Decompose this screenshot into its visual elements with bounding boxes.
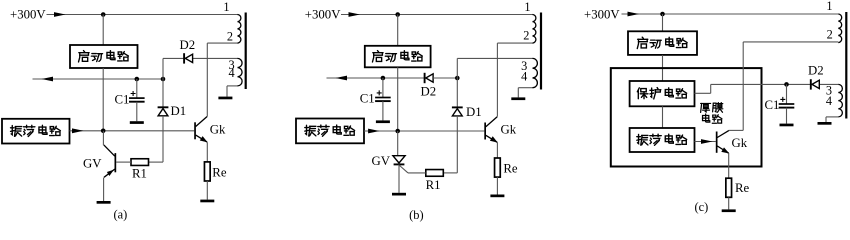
wire: node down to C1 (c) <box>786 84 788 104</box>
transistor Gk (c) <box>716 132 718 153</box>
ground below transformer (a) <box>218 97 232 100</box>
svg-text:4: 4 <box>229 66 235 80</box>
wire: node up and over to transformer pin 3 (b) <box>456 58 458 78</box>
svg-text:C1: C1 <box>765 98 780 112</box>
wire: +300V rail (c) <box>622 13 839 15</box>
wire: node down to D1 (a) <box>162 79 164 108</box>
wire: start-up box to hybrid module (c) <box>662 55 664 81</box>
svg-text:R1: R1 <box>426 178 441 192</box>
svg-text:Gk: Gk <box>732 136 748 150</box>
svg-text:D1: D1 <box>466 105 482 119</box>
svg-text:+300V: +300V <box>10 8 46 22</box>
wire: GV cathode to ground (b) <box>398 164 400 192</box>
wire: pin 4 to ground (b) <box>518 87 532 89</box>
diode D2 (c) <box>811 79 820 89</box>
transformer primary winding pins 1-2 (c) <box>838 14 841 43</box>
wire: C1 to ground (a) <box>136 102 138 121</box>
ground below C1 (c) <box>780 124 794 127</box>
transformer core (c) <box>845 12 847 119</box>
wire: protection line to transformer pin 3 (c) <box>711 83 839 85</box>
arrowhead on +300V rail (c) <box>628 12 640 17</box>
wire: node down to GV diode (b) <box>397 131 399 156</box>
svg-text:D1: D1 <box>171 104 187 118</box>
ground below GV (a) <box>97 201 111 204</box>
svg-text:2: 2 <box>227 30 233 44</box>
wire: Gk emitter down to Re (a) <box>206 142 208 162</box>
transistor Gk (a) <box>194 117 208 143</box>
svg-text:4: 4 <box>826 94 832 108</box>
node: C1 junction dot (c) <box>784 82 789 87</box>
resistor Re (b) <box>495 158 501 177</box>
thick-film hybrid module outline 厚膜电路 (c) <box>611 68 762 166</box>
wire: oscillator output to Gk base (a) <box>70 130 195 132</box>
start-up circuit block 启动电路 (c) <box>628 31 697 55</box>
start-up circuit block 启动电路 (a) <box>70 45 138 68</box>
diode D1 (b) <box>452 107 463 116</box>
svg-text:1: 1 <box>524 0 530 14</box>
transformer core (b) <box>540 13 542 90</box>
capacitor C1 (c) <box>779 97 795 108</box>
wire: Gk collector up to transformer pin 2 (a) <box>206 43 208 116</box>
node: oscillator line junction dot (a) <box>101 129 106 134</box>
wire: R1 to GV base (a) <box>116 161 131 163</box>
node: rail junction dot (c) <box>660 12 665 17</box>
arrowhead on +300V rail (b) <box>349 12 361 17</box>
resistor R1 (b) <box>426 170 444 177</box>
arrowhead on oscillator output (b) <box>368 129 380 134</box>
svg-text:1: 1 <box>223 0 229 14</box>
node: rail junction dot (a) <box>101 12 106 17</box>
capacitor C1 (b) <box>375 90 391 101</box>
svg-text:(a): (a) <box>114 207 128 221</box>
node: C1 junction dot (a) <box>135 77 140 82</box>
resistor Re (a) <box>204 162 210 181</box>
wire: corner to R1 (a) <box>149 161 164 163</box>
resistor R1 (a) <box>131 159 149 166</box>
wire: oscillator output to Gk base (b) <box>364 130 484 132</box>
transformer feedback winding pins 3-4 (b) <box>533 58 538 87</box>
wire: start-up box down to oscillator node (b) <box>397 67 399 131</box>
svg-text:2: 2 <box>827 28 833 42</box>
ground below transformer (c) <box>818 122 832 125</box>
oscillator circuit block 振荡电路 (c) <box>630 128 695 152</box>
wire: rail down to start-up circuit box (a) <box>102 15 104 46</box>
svg-text:(b): (b) <box>409 208 423 222</box>
wire: +300V rail (a) <box>47 14 238 16</box>
svg-text:1: 1 <box>826 0 832 13</box>
wire: D1 down, crossing base line, to R1 corner (a) <box>162 116 164 162</box>
arrowhead (left) on feedback line (b) <box>336 76 348 81</box>
svg-text:Re: Re <box>735 181 750 195</box>
svg-text:Re: Re <box>503 162 518 176</box>
label 厚膜电路 two lines (c) <box>701 103 711 112</box>
ground below Re (a) <box>200 200 214 203</box>
wire: node up to D2 branch (a) <box>162 58 164 79</box>
node: C1 junction dot (b) <box>381 76 386 81</box>
svg-text:D2: D2 <box>421 84 437 98</box>
transistor GV (a) <box>104 145 116 177</box>
resistor Re (c) <box>726 178 732 197</box>
svg-text:Gk: Gk <box>210 122 226 136</box>
svg-text:2: 2 <box>523 29 529 43</box>
oscillator circuit block 振荡电路 (a) <box>2 119 70 144</box>
wire: pin 4 to ground (c) <box>826 116 838 118</box>
svg-text:(c): (c) <box>695 200 709 214</box>
diode D2 (b) <box>425 73 434 83</box>
svg-text:D2: D2 <box>808 64 824 78</box>
wire: Gk emitter down to Re (c) <box>728 153 730 178</box>
diode D1 (a) <box>158 107 169 116</box>
svg-text:C1: C1 <box>360 92 375 106</box>
wire: protection circuit output jog (c) <box>695 92 711 94</box>
wire: rail down to start-up box (c) <box>662 14 664 31</box>
transformer primary winding pins 1-2 (a) <box>238 15 241 44</box>
wire: rail down to start-up box (b) <box>397 15 399 46</box>
capacitor C1 (a) <box>129 91 145 102</box>
svg-text:R1: R1 <box>132 167 147 181</box>
wire: start-up box down to oscillator output node (a) <box>102 68 104 131</box>
diode GV (b) <box>393 156 405 165</box>
ground below Re (c) <box>722 209 736 212</box>
ground below C1 (a) <box>130 121 144 124</box>
transformer primary winding pins 1-2 (b) <box>533 15 536 44</box>
wire: pin 2 to winding (b) <box>497 42 532 44</box>
wire: Re to ground (a) <box>206 181 208 200</box>
wire: Re to ground (c) <box>728 197 730 209</box>
wire: C1 node down (b) <box>382 78 384 98</box>
node: rail junction dot (b) <box>395 12 400 17</box>
arrowhead on +300V rail (a) <box>54 12 66 17</box>
ground below transformer (b) <box>511 97 525 100</box>
svg-text:D2: D2 <box>180 38 196 52</box>
node: D1 junction dot (b) <box>455 76 460 81</box>
wire: Gk collector up to pin 2 (b) <box>496 43 498 117</box>
arrowhead into Gk base (c) <box>701 139 713 144</box>
svg-text:+300V: +300V <box>584 8 620 22</box>
wire: pin 4 to ground (a) <box>227 85 238 87</box>
wire: node to C1 (a) <box>136 79 138 98</box>
diode D2 (a) <box>184 53 193 63</box>
transformer core (a) <box>245 13 247 90</box>
transformer secondary winding pins 3-4 (c) <box>838 84 842 116</box>
wire: feedback line with left arrow (a) <box>33 78 164 80</box>
svg-text:Gk: Gk <box>501 123 517 137</box>
wire: Gk emitter down to Re (b) <box>496 143 498 159</box>
transformer feedback winding pins 3-4 (a) <box>238 58 243 86</box>
ground below C1 (b) <box>376 120 390 123</box>
wire: D1 down to R1 corner (b) <box>456 116 458 173</box>
wire: C1 to ground (b) <box>382 101 384 120</box>
arrowhead on oscillator output (a) <box>72 128 84 133</box>
start-up circuit block 启动电路 (b) <box>365 46 431 68</box>
svg-text:4: 4 <box>521 70 527 84</box>
wire: oscillator to Gk base with arrow (c) <box>695 141 716 143</box>
arrowhead (left) on feedback line (a) <box>42 77 54 82</box>
wire: Re to ground (b) <box>496 177 498 194</box>
wire: GV emitter down to ground (a) <box>103 178 105 202</box>
svg-text:Re: Re <box>212 166 227 180</box>
wire: protection to oscillator block (c) <box>662 106 664 128</box>
wire: D2 branch to transformer pin 3 (a) <box>163 57 238 59</box>
svg-text:GV: GV <box>372 154 391 168</box>
node: oscillator junction dot (b) <box>395 129 400 134</box>
wire: GV collector up to node (a) <box>102 131 104 145</box>
ground below GV (b) <box>392 193 406 196</box>
wire: C1 to ground (c) <box>786 108 788 124</box>
wire: D2 to D1 node (b) <box>433 77 457 79</box>
oscillator circuit block 振荡电路 (b) <box>296 119 364 144</box>
wire: R1 to GV cathode jog (b) <box>408 172 426 174</box>
wire: pin 2 to winding (c) <box>743 41 838 43</box>
wire: node down to D1 (b) <box>456 78 458 108</box>
wire: Gk collector bend up to pin 2 (c) <box>729 129 744 131</box>
svg-text:C1: C1 <box>115 92 130 106</box>
wire: pin 2 to winding (a) <box>207 42 237 44</box>
svg-text:+300V: +300V <box>305 8 341 22</box>
node: D1/D2 junction dot (a) <box>161 77 166 82</box>
protection circuit block 保护电路 (c) <box>630 81 695 106</box>
wire: +300V rail (b) <box>341 14 533 16</box>
ground below Re (b) <box>490 195 504 198</box>
transistor Gk (b) <box>484 117 498 143</box>
wire: feedback line left arrow to D2 (b) <box>327 77 425 79</box>
svg-text:GV: GV <box>83 156 102 170</box>
